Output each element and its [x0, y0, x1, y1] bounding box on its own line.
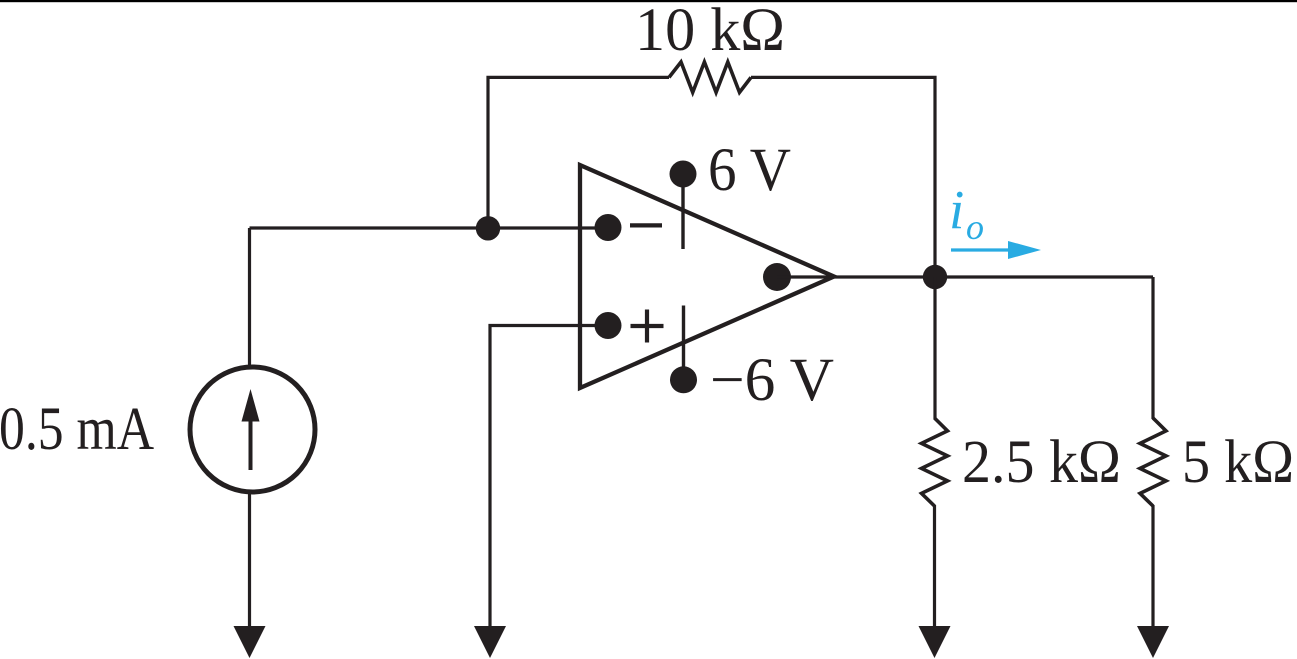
wire: 5k resistor to ground — [1151, 505, 1154, 629]
current arrow i_o — [951, 248, 1010, 251]
wire: node B down to 2.5k resistor — [933, 277, 936, 419]
svg-text:5 kΩ: 5 kΩ — [1182, 429, 1294, 496]
svg-text:−6 V: −6 V — [710, 347, 834, 414]
wire: 2.5k resistor to ground — [933, 505, 936, 629]
resistor R3 5 kOhm — [1140, 418, 1166, 506]
pin: positive supply dot — [670, 161, 697, 188]
svg-text:i: i — [949, 179, 964, 240]
current source I1 0.5 mA circle — [190, 367, 315, 492]
minus sign (inverting input) — [630, 223, 662, 227]
pin: positive supply line — [681, 174, 684, 249]
wire: source top vertical — [248, 228, 251, 366]
wire: 5k branch vertical — [1151, 277, 1154, 419]
pin: negative supply dot — [670, 366, 697, 393]
svg-text:6 V: 6 V — [708, 137, 791, 204]
svg-text:o: o — [966, 207, 984, 247]
resistor R2 2.5 kOhm — [922, 418, 948, 506]
resistor R1 10 kOhm (feedback) — [669, 62, 751, 92]
wire: feedback left (node A up to top) — [488, 77, 669, 228]
svg-text:10 kΩ: 10 kΩ — [635, 0, 785, 64]
ground arrow (5k branch) — [1137, 626, 1169, 658]
wire: source to inverting input — [250, 226, 601, 229]
plus sign (noninverting input) — [631, 310, 664, 343]
ground arrow (2.5k branch) — [919, 626, 951, 658]
ground arrow (noninverting input) — [474, 626, 506, 658]
wire: source bottom vertical — [248, 492, 251, 629]
pin: noninverting input dot — [595, 312, 622, 339]
wire: feedback right (top to output node) — [751, 77, 935, 277]
node A junction dot — [476, 216, 500, 240]
wire: output to 5k branch — [777, 275, 1153, 278]
ground arrow (below current source) — [234, 626, 266, 658]
pin: inverting input dot — [595, 214, 622, 241]
pin: negative supply line — [682, 306, 685, 381]
wire: noninverting input to ground — [490, 326, 600, 630]
svg-text:2.5 kΩ: 2.5 kΩ — [962, 429, 1121, 496]
op-amp U1 triangle — [580, 165, 834, 388]
current source I1 arrow — [249, 418, 253, 470]
svg-text:0.5 mA: 0.5 mA — [0, 396, 154, 463]
pin: output dot — [763, 263, 791, 291]
node B junction dot (output node) — [923, 265, 947, 289]
